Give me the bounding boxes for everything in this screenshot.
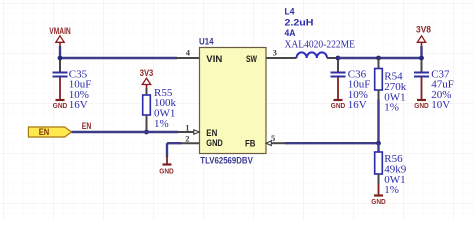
ground below C37 xyxy=(414,78,429,111)
svg-text:2: 2 xyxy=(185,134,189,144)
wire 3V8 to rail xyxy=(420,46,422,58)
power port 3V8 xyxy=(416,24,431,46)
power port 3V3 xyxy=(140,68,154,88)
capacitor C37 xyxy=(414,60,454,111)
junction L4/C36 xyxy=(336,56,341,61)
svg-text:SW: SW xyxy=(246,54,257,65)
inductor L4 xyxy=(285,6,356,58)
pin 1 (EN) arrow xyxy=(178,130,200,135)
junction rail/C37 xyxy=(419,56,424,61)
pin 3 stub xyxy=(266,57,297,59)
svg-text:GND: GND xyxy=(331,101,346,110)
svg-text:1: 1 xyxy=(185,122,189,132)
capacitor C35 xyxy=(53,60,92,111)
svg-text:3: 3 xyxy=(273,47,277,57)
junction at VMAIN/C35 xyxy=(58,56,63,61)
ground below R56 xyxy=(371,174,386,206)
svg-text:GND: GND xyxy=(159,167,174,176)
wire R55 to EN net xyxy=(146,115,148,132)
svg-text:1%: 1% xyxy=(384,102,399,114)
wire output rail xyxy=(338,57,422,59)
ground below pin 2 xyxy=(159,156,174,176)
junction rail/R54 xyxy=(376,56,381,61)
resistor R54 xyxy=(375,58,407,114)
svg-text:16V: 16V xyxy=(69,99,88,111)
wire FB xyxy=(285,142,379,144)
svg-text:VIN: VIN xyxy=(206,54,222,65)
svg-text:5: 5 xyxy=(271,133,275,143)
resistor R55 xyxy=(143,87,177,130)
pin 4 stub xyxy=(176,57,200,59)
svg-text:EN: EN xyxy=(39,127,50,137)
svg-text:EN: EN xyxy=(82,121,92,131)
svg-text:GND: GND xyxy=(414,101,429,110)
ground below C35 xyxy=(53,78,68,111)
svg-text:L4: L4 xyxy=(285,6,296,17)
svg-text:GND: GND xyxy=(371,197,386,206)
svg-text:10V: 10V xyxy=(431,99,450,111)
svg-text:U14: U14 xyxy=(199,36,214,47)
IC U14 TLV62569DBV xyxy=(199,36,266,165)
svg-text:3V3: 3V3 xyxy=(140,68,154,78)
ground below C36 xyxy=(331,78,346,111)
svg-text:FB: FB xyxy=(245,139,256,150)
power port VMAIN xyxy=(49,26,71,47)
junction FB node xyxy=(376,141,381,146)
wire EN xyxy=(72,131,179,133)
svg-text:VMAIN: VMAIN xyxy=(49,26,71,36)
pin 2 (GND) wire xyxy=(167,143,200,157)
svg-text:XAL4020-222ME: XAL4020-222ME xyxy=(285,38,356,50)
pin 5 (FB) arrow xyxy=(266,141,286,146)
junction R55/EN wire xyxy=(144,130,149,135)
resistor R56 xyxy=(375,143,407,196)
svg-text:GND: GND xyxy=(53,101,68,110)
wire VMAIN to rail xyxy=(59,46,61,58)
wire top rail xyxy=(60,57,177,59)
svg-text:16V: 16V xyxy=(348,99,367,111)
svg-text:1%: 1% xyxy=(384,184,399,196)
svg-text:TLV62569DBV: TLV62569DBV xyxy=(200,155,253,165)
svg-text:GND: GND xyxy=(206,138,223,149)
svg-text:3V8: 3V8 xyxy=(416,24,431,34)
svg-text:1%: 1% xyxy=(154,118,169,130)
port EN xyxy=(28,127,71,137)
capacitor C36 xyxy=(331,60,371,111)
wire R54 to FB node xyxy=(378,90,380,101)
